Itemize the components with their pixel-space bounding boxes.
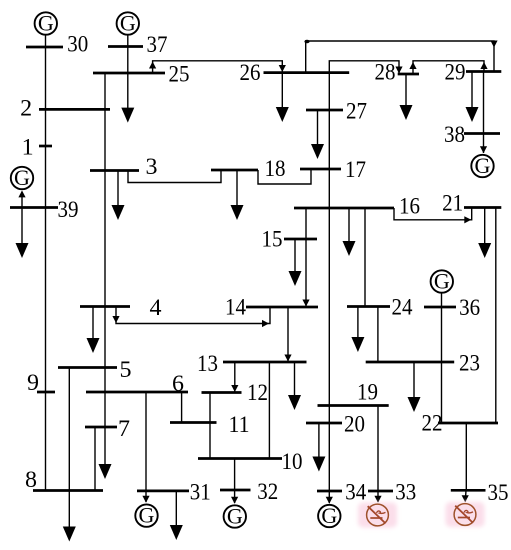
svg-text:30: 30	[67, 32, 88, 58]
small arrow into red 35	[462, 495, 469, 502]
wire 36-23-22	[441, 293, 443, 423]
bus 4	[80, 305, 130, 308]
wire 7-8	[94, 427, 96, 491]
wire 24-23	[377, 307, 379, 363]
wire G31 stub	[145, 491, 147, 502]
wire 30-2-1-39-9-8	[45, 35, 47, 491]
svg-text:18: 18	[265, 156, 286, 182]
bus 38	[464, 132, 500, 135]
small arrow 26-28 onto bus 28	[395, 67, 402, 74]
small arrow 16-21 corner	[464, 216, 471, 223]
wire 21-22	[495, 208, 497, 424]
wire 17-18	[258, 169, 311, 184]
junction dot 26-29 corner	[304, 40, 309, 44]
svg-text:23: 23	[459, 351, 480, 377]
svg-text:26: 26	[240, 60, 261, 86]
wire 2-25	[104, 73, 106, 109]
wire red35 stub	[464, 490, 467, 501]
small arrow 4-14 corner	[262, 320, 269, 327]
svg-text:27: 27	[346, 99, 367, 125]
wire 13-12	[234, 362, 236, 393]
svg-text:25: 25	[169, 62, 190, 88]
load arrow bus 23	[408, 362, 421, 412]
svg-text:36: 36	[459, 295, 480, 321]
bus 20	[306, 422, 342, 425]
wire 25-26	[153, 61, 283, 73]
load arrow bus 8	[63, 491, 76, 542]
bus 19	[318, 404, 389, 407]
svg-text:13: 13	[197, 351, 218, 377]
wire 17-16	[328, 169, 330, 208]
bus 30	[26, 46, 63, 49]
svg-text:1: 1	[22, 135, 34, 161]
small arrow 28-29 up2	[480, 62, 487, 69]
wire 4-14	[116, 307, 270, 324]
load arrow bus 21	[478, 208, 491, 259]
svg-text:10: 10	[282, 449, 303, 475]
svg-text:11: 11	[229, 412, 250, 438]
load arrow bus 26	[276, 73, 289, 122]
bus 34	[317, 490, 342, 493]
wire 12-11	[209, 393, 211, 423]
svg-text:39: 39	[58, 197, 79, 223]
wire 3-4	[104, 171, 106, 307]
wire 16-24	[364, 208, 366, 307]
svg-text:5: 5	[120, 357, 132, 383]
bus 25	[93, 72, 165, 75]
bus 31	[137, 490, 189, 493]
generator G32	[224, 503, 246, 528]
bus 37	[108, 45, 143, 48]
wire 11-10	[209, 423, 211, 459]
small arrow 15-14 onto bus 14	[302, 300, 309, 307]
wire 5-8	[68, 368, 70, 491]
svg-text:G: G	[321, 503, 337, 528]
bus 11	[170, 421, 217, 424]
svg-text:32: 32	[257, 479, 278, 505]
wire 26-27	[328, 73, 330, 110]
small arrow 25-26 onto bus 26	[279, 65, 286, 72]
small arrow into G38	[480, 146, 487, 153]
small arrow 13-12 onto bus 12	[231, 385, 238, 392]
generator G31	[135, 503, 157, 528]
bus 7	[85, 426, 117, 429]
svg-text:G: G	[434, 268, 450, 293]
load arrow bus 24	[351, 307, 364, 353]
svg-text:35: 35	[488, 480, 509, 506]
svg-text:20: 20	[344, 412, 365, 438]
load arrow bus 20	[312, 423, 325, 472]
svg-text:7: 7	[118, 416, 130, 442]
svg-text:33: 33	[395, 480, 416, 506]
wire 28-29	[413, 61, 484, 74]
svg-text:28: 28	[375, 60, 396, 86]
wire 3-18	[128, 170, 221, 183]
small arrow 28-29 up	[409, 62, 416, 69]
wire 14-13	[287, 307, 289, 362]
svg-text:14: 14	[225, 295, 246, 321]
generator G37	[117, 10, 139, 35]
load arrow bus 13	[288, 362, 301, 410]
small arrow into G39	[18, 190, 25, 197]
wire 19-20	[328, 406, 330, 424]
small arrow into red 33	[374, 496, 381, 503]
svg-text:2: 2	[20, 96, 32, 122]
wire 22-35	[465, 423, 467, 490]
wire 16-21	[394, 208, 472, 220]
bus 2	[39, 108, 110, 111]
bus 17	[300, 168, 341, 171]
bus 29	[466, 70, 501, 73]
generator G38	[471, 153, 493, 178]
load arrow bus 27	[311, 110, 324, 159]
svg-text:22: 22	[422, 411, 443, 437]
wire red33 stub	[377, 491, 379, 502]
bus 8	[33, 489, 103, 492]
generator G30	[35, 10, 57, 35]
bus 16	[294, 207, 394, 210]
bus 6	[86, 391, 188, 394]
small arrow into G32	[231, 497, 238, 504]
load arrow bus 7	[99, 427, 112, 479]
bus 23	[366, 361, 455, 364]
svg-text:19: 19	[357, 380, 378, 406]
generator G39	[11, 165, 33, 190]
wire 26-28	[329, 61, 399, 74]
load arrow bus 3	[112, 171, 125, 221]
bus 14	[246, 306, 318, 309]
wire 16-19	[328, 208, 330, 406]
generator G34	[318, 503, 340, 528]
wire 16-15	[305, 208, 307, 239]
small arrow 14-13 onto bus 13	[284, 355, 291, 362]
bus 39	[10, 206, 58, 209]
tripped generator 33	[358, 503, 397, 528]
load arrow bus 28	[400, 74, 413, 120]
small arrow into G34	[326, 497, 333, 504]
wire 19-33	[377, 406, 379, 492]
tripped generator 35	[446, 502, 485, 527]
generator G36	[431, 268, 453, 293]
load arrow bus 4	[87, 307, 100, 354]
svg-text:29: 29	[445, 60, 466, 86]
svg-text:17: 17	[345, 157, 366, 183]
load arrow bus 18	[231, 170, 244, 220]
svg-text:G: G	[120, 10, 136, 35]
svg-text:G: G	[139, 503, 155, 528]
load arrow bus 25	[121, 73, 134, 123]
bus 1	[39, 145, 52, 148]
svg-text:G: G	[227, 503, 243, 528]
load arrow bus 16	[343, 208, 356, 256]
wire 29-38	[483, 72, 485, 154]
load arrow bus 31	[170, 491, 183, 540]
wire 13-10	[268, 362, 270, 459]
svg-text:34: 34	[345, 480, 366, 506]
load arrow bus 29	[466, 72, 479, 123]
bus 32	[220, 489, 251, 492]
wire 20-34	[328, 423, 330, 491]
bus 33	[368, 490, 393, 493]
svg-text:16: 16	[399, 194, 420, 220]
small arrow 25-26 top	[149, 62, 156, 69]
bus 24	[347, 305, 390, 308]
svg-text:4: 4	[150, 295, 162, 321]
small arrow into G31	[142, 496, 149, 503]
wire 10-32	[234, 459, 236, 504]
bus 5	[58, 366, 117, 369]
bus 21	[464, 206, 501, 209]
svg-text:37: 37	[147, 32, 168, 58]
wire 27-17	[328, 110, 330, 169]
bus 26	[264, 71, 350, 74]
bus 36	[424, 306, 456, 309]
small arrow 4-14 down	[112, 316, 119, 323]
wire 2-3	[104, 109, 106, 170]
bus 10	[198, 457, 282, 460]
bus 9	[37, 391, 55, 394]
wire 4-5	[104, 307, 106, 368]
wire 6-31	[145, 392, 147, 491]
svg-text:15: 15	[262, 227, 283, 253]
svg-text:38: 38	[444, 122, 465, 148]
wire 37-25	[127, 35, 129, 73]
svg-text:9: 9	[27, 370, 39, 396]
bus 35	[451, 489, 486, 492]
bus 27	[306, 109, 343, 112]
wire 15-14	[305, 239, 307, 307]
small arrow 26-29 onto bus 29	[490, 41, 497, 48]
svg-text:G: G	[14, 165, 30, 190]
svg-text:G: G	[38, 10, 54, 35]
bus 13	[223, 361, 307, 364]
wire 6-11	[181, 392, 183, 423]
wire G34 stub	[328, 491, 330, 503]
svg-text:8: 8	[25, 467, 37, 493]
load arrow bus 15	[289, 239, 302, 286]
bus 18	[211, 169, 258, 172]
load arrow bus 39	[16, 208, 29, 259]
svg-text:12: 12	[247, 380, 268, 406]
svg-text:31: 31	[190, 480, 211, 506]
svg-text:3: 3	[146, 154, 158, 180]
bus 3	[90, 169, 139, 172]
bus 28	[398, 73, 419, 76]
wire G39 stub	[21, 193, 23, 208]
svg-text:24: 24	[392, 295, 413, 321]
wire 26-29	[306, 41, 494, 73]
wire 5-6	[104, 368, 106, 393]
svg-text:6: 6	[172, 371, 184, 397]
bus 22	[438, 422, 498, 425]
svg-text:G: G	[475, 153, 491, 178]
bus 15	[284, 238, 317, 241]
bus 12	[202, 391, 242, 394]
svg-text:21: 21	[442, 190, 463, 216]
wire 6-7	[104, 392, 106, 427]
